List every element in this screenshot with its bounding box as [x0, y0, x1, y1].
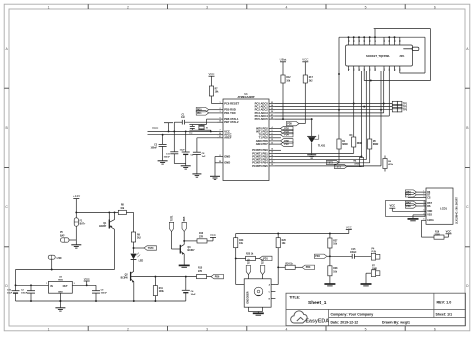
svg-text:R23: R23 — [239, 240, 244, 242]
svg-text:10uF: 10uF — [191, 294, 197, 296]
wire ADC4 — [275, 115, 389, 117]
socket ZIF1 SOCKET_TQFP32L — [346, 45, 413, 66]
svg-text:LEDA: LEDA — [427, 219, 434, 222]
resistor R23 — [235, 234, 237, 238]
node PD4 net label — [275, 134, 281, 136]
node TST0 net label — [133, 242, 135, 253]
svg-text:PD5: PD5 — [287, 123, 292, 125]
svg-text:VCC: VCC — [446, 230, 452, 234]
power flag VCC at R10 — [207, 240, 213, 242]
wire frame around VCC group — [386, 200, 425, 216]
ground below U2 — [55, 307, 65, 309]
svg-text:1: 1 — [219, 102, 220, 104]
svg-text:Sheet_1: Sheet_1 — [308, 300, 327, 306]
svg-text:TP2: TP2 — [403, 107, 408, 109]
svg-text:PD4: PD4 — [315, 255, 320, 258]
svg-text:ZIF1: ZIF1 — [400, 55, 406, 58]
svg-text:680R: 680R — [342, 144, 348, 146]
resistor R6 — [384, 156, 386, 159]
wire PB3 to socket — [275, 159, 366, 161]
wire socket top bus — [339, 36, 425, 38]
LED LED1 — [130, 254, 136, 260]
wire socket loop inner — [424, 37, 426, 73]
node PB4 net label LCD — [405, 193, 416, 197]
svg-text:680R: 680R — [373, 144, 379, 146]
ground rail under caps — [174, 163, 185, 165]
node PD0 net label — [196, 108, 209, 112]
resistor R26 — [277, 234, 279, 238]
svg-text:PB5: PB5 — [406, 206, 411, 208]
svg-text:15: 15 — [271, 152, 273, 154]
svg-text:VCC: VCC — [210, 233, 216, 237]
svg-text:11: 11 — [359, 69, 361, 71]
svg-text:12: 12 — [271, 139, 273, 141]
node PB2 net label LCD — [405, 201, 416, 205]
svg-text:8: 8 — [219, 155, 220, 157]
wire PB5 to socket — [275, 165, 381, 167]
svg-text:17: 17 — [394, 69, 396, 71]
wire XTAL1 — [207, 118, 218, 120]
svg-text:PD3: PD3 — [306, 267, 311, 269]
svg-text:VDD: VDD — [427, 210, 432, 213]
svg-text:9: 9 — [348, 69, 350, 70]
wire R8 to R9 — [126, 211, 133, 213]
svg-text:5: 5 — [365, 5, 367, 9]
power flag VCC at R16 — [444, 236, 449, 238]
power flag VCC regulator — [86, 281, 88, 285]
ground below cap cluster — [181, 165, 191, 167]
svg-text:GND: GND — [224, 161, 230, 165]
svg-text:1nF: 1nF — [181, 117, 186, 119]
svg-text:9: 9 — [219, 117, 220, 119]
title block frame — [286, 293, 466, 326]
resistor R11 — [154, 277, 156, 286]
node PD4 net label — [329, 248, 331, 256]
wire LEDA to R16 — [421, 220, 423, 237]
svg-text:10uF: 10uF — [7, 293, 13, 295]
svg-text:R28: R28 — [333, 268, 338, 270]
svg-text:4: 4 — [423, 201, 424, 204]
svg-text:PD1 TXD: PD1 TXD — [224, 111, 235, 115]
wire 12V rail — [76, 211, 118, 213]
svg-text:2: 2 — [423, 193, 424, 195]
svg-text:TP3: TP3 — [403, 110, 408, 112]
connector SW1 rotary encoder — [244, 279, 271, 307]
svg-text:16: 16 — [389, 69, 391, 71]
ground below R28 — [329, 276, 331, 284]
svg-text:GND: GND — [224, 154, 230, 158]
svg-text:16: 16 — [271, 155, 273, 157]
transistor Q3 — [179, 245, 181, 254]
header TP2 — [392, 104, 397, 108]
node PD2 net label — [275, 128, 281, 130]
svg-text:13: 13 — [370, 69, 372, 71]
svg-text:LED: LED — [139, 260, 144, 262]
node PB5 net label LCD — [405, 204, 416, 208]
svg-text:GND: GND — [58, 291, 63, 293]
svg-text:3: 3 — [206, 327, 208, 331]
svg-text:VCC: VCC — [152, 126, 159, 130]
wire battery feed line — [16, 269, 115, 271]
svg-text:25: 25 — [271, 108, 273, 110]
svg-text:Date: 2019-12-12: Date: 2019-12-12 — [331, 320, 359, 324]
node PD5 net label upper — [287, 121, 300, 125]
header TP1 — [392, 101, 397, 105]
svg-text:25: 25 — [389, 40, 391, 42]
wire socket pin down to R5 — [369, 71, 371, 139]
wire LCD CS — [408, 197, 422, 199]
wire Q2 base line — [131, 276, 197, 278]
resistor R12 — [281, 75, 285, 83]
resistor R27 — [329, 234, 331, 239]
wire AVCC rail — [148, 134, 218, 136]
svg-text:6: 6 — [271, 133, 272, 135]
ground below encoder — [253, 312, 264, 314]
wire VCC rail encoder — [236, 233, 349, 235]
svg-text:10uF: 10uF — [180, 149, 186, 151]
svg-text:3: 3 — [206, 5, 208, 9]
svg-text:JLX12864G_086_SHORT: JLX12864G_086_SHORT — [455, 197, 458, 224]
node PD1 net label — [196, 111, 209, 115]
svg-text:220R: 220R — [435, 235, 441, 237]
fuse F1 BAT+ — [75, 212, 77, 217]
wire ground rail — [16, 300, 186, 302]
svg-text:470k: 470k — [354, 163, 360, 166]
svg-text:3: 3 — [219, 111, 220, 113]
capacitor C8 — [193, 151, 201, 153]
connector LCD1 JLX12864G — [426, 188, 453, 224]
wire R17 down — [304, 83, 306, 124]
svg-text:RS: RS — [427, 205, 431, 208]
svg-text:TST3: TST3 — [335, 166, 341, 168]
svg-text:SOCKET_TQFP32L: SOCKET_TQFP32L — [366, 54, 390, 58]
svg-text:31: 31 — [354, 40, 356, 42]
svg-text:PD7: PD7 — [284, 144, 289, 146]
resistor R7 — [209, 86, 213, 96]
resistor R25 — [236, 257, 246, 259]
svg-text:BC847: BC847 — [188, 249, 196, 252]
svg-text:100nF: 100nF — [350, 252, 357, 254]
svg-text:4: 4 — [285, 5, 287, 9]
ground below Q3 — [179, 264, 190, 266]
capacitor C3 — [162, 135, 164, 145]
svg-text:R25 1k: R25 1k — [246, 254, 254, 256]
svg-text:TST3: TST3 — [248, 258, 250, 264]
resistor R10 — [197, 239, 207, 243]
node PD3 net label — [295, 266, 302, 268]
svg-text:VCC: VCC — [209, 72, 215, 76]
border tick marks — [87, 4, 89, 9]
capacitor C5 — [185, 130, 187, 132]
svg-text:BC857: BC857 — [99, 226, 107, 228]
svg-text:26: 26 — [271, 111, 273, 113]
wire R5 to PB4 — [369, 149, 371, 163]
wire Q2 emitter down — [133, 282, 135, 301]
svg-text:LCD1: LCD1 — [440, 207, 447, 211]
wire Q1 collector down — [114, 229, 116, 269]
wire R26 bottom — [277, 248, 279, 268]
resistor R28 — [329, 256, 331, 266]
resistor R4 — [361, 157, 363, 158]
svg-text:2: 2 — [219, 108, 220, 110]
svg-text:100nF: 100nF — [21, 293, 28, 295]
svg-text:7: 7 — [219, 130, 220, 132]
svg-text:Sheet: 1/1: Sheet: 1/1 — [436, 312, 453, 316]
svg-text:7805: 7805 — [58, 280, 64, 282]
svg-text:REV: 1.0: REV: 1.0 — [437, 300, 452, 304]
svg-text:R27: R27 — [333, 240, 338, 242]
wire regulator IN rail — [16, 284, 49, 286]
wire PB0 stub — [275, 149, 281, 151]
svg-text:TL431: TL431 — [318, 145, 326, 148]
resistor R17 — [303, 75, 307, 83]
node TST1 vertical net label — [169, 222, 173, 231]
svg-text:3: 3 — [74, 283, 75, 285]
svg-text:VCC: VCC — [84, 277, 90, 281]
svg-text:1: 1 — [48, 327, 50, 331]
svg-text:11: 11 — [271, 136, 273, 138]
svg-text:1: 1 — [46, 283, 47, 285]
wire Q3 emitter — [183, 254, 185, 265]
power flag VCC encoder rail — [348, 230, 350, 234]
wire T1 PD5 stub — [275, 137, 281, 139]
regulator U2 7805 — [49, 281, 73, 293]
ground below LCD — [408, 218, 419, 220]
svg-text:PD6: PD6 — [215, 276, 220, 278]
svg-text:R24 1k: R24 1k — [286, 262, 294, 265]
transistor Q1 — [108, 212, 110, 219]
svg-text:R26: R26 — [282, 240, 287, 242]
node PD1 net label encoder — [256, 257, 260, 259]
svg-text:100nF: 100nF — [150, 147, 157, 149]
svg-text:PB4: PB4 — [406, 194, 411, 197]
transistor Q2 — [130, 272, 132, 281]
svg-text:ENCODER: ENCODER — [246, 291, 249, 303]
ground below P7 — [361, 283, 372, 285]
svg-text:Drawn By: wegi1: Drawn By: wegi1 — [382, 320, 410, 324]
capacitor C1 — [185, 121, 217, 123]
op-amp U1 microcontroller ATMEGA328P — [223, 99, 269, 181]
wire MCU GND pins — [215, 156, 217, 158]
svg-text:6: 6 — [423, 210, 424, 212]
node TST3 net label — [347, 166, 362, 168]
svg-text:3: 3 — [423, 196, 424, 198]
svg-text:1.5M: 1.5M — [56, 258, 61, 260]
resistor R3 — [352, 137, 356, 147]
svg-text:7: 7 — [423, 213, 424, 215]
svg-text:27: 27 — [271, 114, 273, 116]
capacitor C15 — [330, 255, 352, 257]
wire PB2 to socket — [275, 156, 362, 158]
svg-text:PD4: PD4 — [284, 134, 289, 137]
svg-text:32: 32 — [348, 40, 350, 42]
svg-text:12: 12 — [364, 69, 366, 71]
node TST2 net label — [338, 149, 340, 163]
wire socket pin down to R3 — [353, 71, 355, 137]
svg-text:TST1: TST1 — [171, 215, 173, 221]
svg-text:27R: 27R — [199, 236, 204, 238]
svg-text:680R: 680R — [357, 143, 363, 145]
wire R12 to ADC5 line — [282, 83, 284, 119]
wire Q3 collector to R10 — [184, 240, 197, 242]
svg-text:1: 1 — [48, 5, 50, 9]
svg-text:10: 10 — [354, 69, 356, 71]
wire R7 to RESET pin — [211, 96, 213, 104]
capacitor C2 crystal cap — [191, 125, 193, 127]
resistor R24 — [278, 266, 285, 268]
capacitor C4 — [185, 277, 187, 291]
resistor R15 — [197, 275, 207, 279]
diode U4 TL431 — [311, 119, 313, 136]
svg-text:13: 13 — [271, 142, 273, 144]
wire encoder ground — [248, 311, 262, 313]
svg-text:26: 26 — [384, 40, 386, 42]
wire ADC3 — [275, 112, 384, 114]
wire LED to Q2 — [133, 260, 135, 272]
svg-text:VSS: VSS — [427, 214, 432, 217]
svg-text:20: 20 — [219, 133, 221, 135]
wire regulator OUT rail — [72, 284, 96, 286]
svg-text:29: 29 — [364, 40, 366, 42]
node TST3 vertical net label — [246, 265, 250, 274]
svg-text:Company: Your Company: Company: Your Company — [331, 312, 374, 316]
svg-text:2: 2 — [127, 327, 129, 331]
resistor R16 — [434, 235, 444, 239]
wire crystal to VCC rail — [207, 129, 211, 131]
svg-text:TITLE:: TITLE: — [289, 296, 300, 300]
wire regulator GND — [59, 293, 61, 307]
svg-text:BAT-: BAT- — [60, 234, 65, 237]
wire socket bus down to R1 — [338, 37, 340, 139]
resistor R1 — [337, 139, 341, 149]
node TST2 vertical net label — [260, 265, 264, 274]
svg-text:TP1: TP1 — [403, 104, 408, 106]
svg-text:5: 5 — [423, 204, 424, 206]
ground below P5 — [75, 240, 77, 245]
crystal X1 — [189, 124, 206, 126]
capacitor C9 — [95, 285, 97, 290]
wire VCC to LCD VDD — [392, 210, 421, 212]
wire AREF — [197, 137, 217, 139]
svg-text:VCC: VCC — [346, 225, 352, 229]
pin P2 1.5M — [48, 255, 55, 259]
svg-text:17: 17 — [271, 158, 273, 160]
svg-text:23: 23 — [271, 102, 273, 104]
node PD5 vertical net label — [182, 222, 186, 231]
svg-text:CS: CS — [427, 196, 431, 199]
wire R23 bottom — [235, 248, 237, 259]
svg-text:18: 18 — [271, 161, 273, 163]
resistor R5 — [368, 139, 372, 149]
svg-text:1: 1 — [423, 191, 424, 193]
svg-text:+12V: +12V — [73, 194, 80, 198]
svg-text:OUT: OUT — [63, 285, 69, 288]
ground below TL431 — [307, 154, 316, 156]
svg-text:VCC: VCC — [389, 204, 395, 208]
svg-text:PCINT5 PB5: PCINT5 PB5 — [252, 164, 268, 168]
svg-text:PD5: PD5 — [184, 216, 186, 221]
svg-text:100k: 100k — [159, 291, 165, 293]
svg-text:4: 4 — [285, 327, 287, 331]
wire ADC5 to TL431 — [275, 118, 312, 120]
wire P7 to ground — [366, 272, 371, 274]
wire VCC rail to pin 7 — [148, 130, 218, 132]
svg-text:28: 28 — [370, 40, 372, 42]
svg-text:IN: IN — [50, 285, 53, 288]
resistor R8 — [118, 210, 126, 214]
node PB3 net label LCD — [405, 190, 416, 194]
svg-text:21: 21 — [219, 136, 221, 138]
wire C1 down to VCC rail — [173, 122, 175, 131]
svg-text:PB3: PB3 — [406, 192, 411, 194]
svg-text:100nF: 100nF — [101, 293, 108, 295]
svg-text:6: 6 — [434, 5, 436, 9]
svg-text:6: 6 — [434, 327, 436, 331]
svg-text:C15: C15 — [351, 249, 356, 251]
svg-text:23: 23 — [400, 40, 402, 42]
wire R3 to PB1 — [353, 147, 355, 153]
ground below C3 — [158, 160, 168, 162]
node PD6 net label — [275, 140, 281, 142]
svg-text:PC6 RESET: PC6 RESET — [224, 101, 239, 105]
svg-text:30: 30 — [359, 40, 361, 42]
svg-text:22: 22 — [219, 161, 221, 163]
svg-text:ATMEGA328P: ATMEGA328P — [237, 95, 254, 99]
svg-text:PB7 XTAL2: PB7 XTAL2 — [224, 120, 239, 124]
node PD7 net label — [275, 143, 281, 145]
svg-text:TST0: TST0 — [148, 248, 154, 250]
svg-text:15: 15 — [384, 69, 386, 71]
svg-text:470k: 470k — [388, 163, 394, 166]
wire ADC1 to TP2 — [275, 106, 392, 108]
svg-text:EasyEDA: EasyEDA — [306, 318, 330, 324]
capacitor C2 input — [30, 285, 32, 290]
svg-text:GND: GND — [372, 268, 377, 270]
svg-text:X1: X1 — [206, 127, 208, 129]
svg-text:18: 18 — [400, 69, 402, 71]
svg-text:BAT+: BAT+ — [80, 223, 86, 226]
svg-text:TST2: TST2 — [263, 258, 265, 264]
svg-text:BC846: BC846 — [121, 277, 129, 280]
wire ADC0 to TP1 — [275, 103, 392, 105]
svg-text:28: 28 — [271, 117, 273, 119]
resistor R9 — [131, 232, 135, 242]
wire encoder left — [235, 258, 237, 284]
svg-text:10: 10 — [219, 121, 221, 123]
wire LCD VSS to ground — [413, 214, 422, 216]
svg-text:AIN1 PD7: AIN1 PD7 — [256, 142, 269, 146]
node PD6 net label — [207, 276, 212, 278]
header TP3 — [392, 108, 397, 112]
wire encoder right — [277, 267, 279, 284]
svg-text:UBat: UBat — [280, 57, 287, 61]
svg-text:19: 19 — [271, 164, 273, 166]
capacitor C10 — [15, 285, 17, 290]
svg-text:5: 5 — [271, 130, 272, 132]
svg-text:PD1: PD1 — [197, 113, 202, 115]
svg-text:R12: R12 — [286, 77, 291, 79]
logo EasyEDA — [291, 311, 308, 323]
ground below MCU — [210, 175, 220, 177]
svg-text:PB2: PB2 — [406, 203, 411, 205]
svg-text:VCC: VCC — [302, 57, 309, 61]
svg-text:5: 5 — [365, 327, 367, 331]
wire socket loop outer — [374, 29, 376, 38]
ground below C8 — [192, 173, 201, 175]
svg-text:AREF: AREF — [224, 136, 232, 140]
svg-text:100nF: 100nF — [164, 157, 171, 159]
node PD3 net label — [275, 131, 281, 133]
